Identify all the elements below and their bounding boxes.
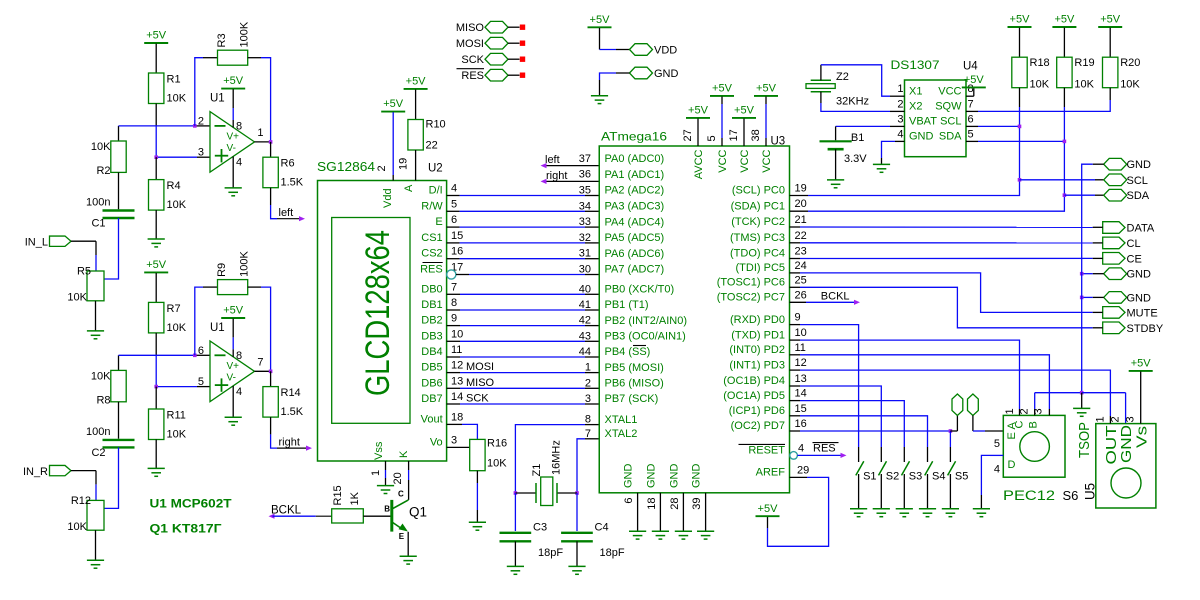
svg-text:18pF: 18pF [600,547,625,559]
svg-text:U1: U1 [210,322,225,334]
svg-text:DB2: DB2 [421,315,442,327]
wire feedback left [195,287,203,355]
svg-text:PB6 (MISO): PB6 (MISO) [605,378,664,390]
svg-text:(OC2) PD7: (OC2) PD7 [731,420,785,432]
wire node to R11 [155,387,157,409]
wire PD3 to TSOP OUT [790,369,801,371]
wire IN_R to R12 [71,470,96,472]
wire node to op-amp +input [156,386,197,388]
svg-text:14: 14 [451,391,463,403]
ground under R12 [87,559,104,561]
svg-text:GND: GND [668,464,680,489]
svg-text:E: E [1006,432,1018,439]
svg-text:33: 33 [579,216,591,228]
svg-text:24: 24 [795,260,807,272]
svg-text:PB0 (XCK/T0): PB0 (XCK/T0) [605,284,675,296]
ground under R4 [148,238,165,240]
svg-text:C3: C3 [533,522,547,534]
IR receiver U5 TSOP outline [1096,424,1156,508]
svg-text:2: 2 [376,165,388,171]
wire R5 to ground [95,301,97,331]
svg-text:K: K [398,450,410,458]
svg-text:8: 8 [451,297,457,309]
wire RTC SDA to R19 column [966,140,978,142]
svg-text:23: 23 [795,246,807,258]
svg-text:PB3 (OC0/AIN1): PB3 (OC0/AIN1) [605,331,686,343]
svg-text:U5: U5 [1082,483,1098,500]
svg-text:4: 4 [897,128,903,140]
svg-text:+5V: +5V [734,105,755,117]
svg-text:7: 7 [451,281,457,293]
svg-text:8: 8 [236,350,242,362]
cyan circle LCD RES pin [447,270,456,279]
net label BCKL (left) [269,514,275,519]
svg-text:GND: GND [1118,425,1135,463]
LCD Vss pin stub [385,461,387,470]
svg-text:3: 3 [897,113,903,125]
svg-text:7: 7 [585,428,591,440]
svg-text:E: E [399,532,405,541]
svg-text:R5: R5 [77,266,91,278]
node GND mid [1080,272,1084,276]
svg-text:C4: C4 [595,522,609,534]
svg-text:PA3 (ADC3): PA3 (ADC3) [605,201,665,213]
svg-text:+5V: +5V [1054,14,1075,26]
svg-text:SCK: SCK [461,54,484,66]
wire R6 to net left [270,188,272,205]
transistor Q1 KT817 [391,501,393,532]
svg-text:+5V: +5V [383,98,404,110]
wire R14 to net right [270,417,272,434]
wire VBAT to B1 [890,125,905,127]
svg-text:R4: R4 [167,180,181,192]
ground under S5 [942,508,959,510]
svg-text:IN_L: IN_L [25,237,48,249]
svg-text:BCKL: BCKL [821,291,850,303]
svg-text:U3: U3 [771,136,786,148]
wire crystal to C3 [514,493,516,531]
svg-text:B: B [1028,421,1040,428]
connector GND [630,67,653,79]
resistor R1 10K [149,73,164,104]
wire PD1 to encoder pin1 [790,339,801,341]
svg-text:+5V: +5V [712,83,733,95]
svg-text:C: C [1014,421,1026,429]
svg-text:+5V: +5V [1100,14,1121,26]
svg-text:10K: 10K [1030,79,1050,91]
svg-text:S6: S6 [1063,488,1079,503]
wire XTAL1 net [585,424,599,426]
capacitor C3 18pF [500,532,532,534]
wire feedback right [248,57,261,59]
svg-text:PEC12: PEC12 [1003,488,1055,503]
svg-text:16MHz: 16MHz [551,440,563,475]
wire C2 to trimmer tap [104,447,119,508]
svg-text:V+: V+ [227,132,240,143]
svg-text:right: right [546,170,567,182]
connector GND (lower) [1104,292,1127,304]
ground under S3 [896,508,913,510]
svg-text:MISO: MISO [466,377,495,389]
svg-text:CS1: CS1 [421,232,442,244]
svg-text:10K: 10K [167,199,187,211]
wire LCD row DB5 [447,372,460,374]
svg-text:DATA: DATA [1127,223,1155,235]
svg-text:+5V: +5V [406,76,427,88]
wire PC2 to DATA [790,226,801,228]
net label right [277,447,307,449]
svg-text:Z1: Z1 [531,464,543,477]
svg-text:16: 16 [795,418,807,430]
wire GND connector [1093,163,1104,165]
svg-text:GND: GND [1127,159,1152,171]
switch S4 [925,461,933,475]
wire PD0 to S1 [790,324,801,326]
svg-text:29: 29 [797,464,809,476]
net label right [541,179,547,184]
resistor R16 10K [470,439,485,470]
svg-text:+5V: +5V [688,105,709,117]
svg-text:GND: GND [623,464,635,489]
resistor R19 10K [1057,57,1072,87]
svg-text:left: left [545,154,560,166]
op-amp U1 unit 1 [210,112,255,173]
svg-text:4: 4 [798,442,804,454]
svg-text:VCC: VCC [938,85,961,97]
connector DATA [1103,222,1125,234]
wire LCD row DB0 [447,293,460,295]
net label left [277,218,300,220]
svg-text:U1 MCP602T: U1 MCP602T [150,497,233,511]
switch S5 [948,461,956,475]
svg-text:38: 38 [750,129,762,141]
svg-text:10K: 10K [167,322,187,334]
wire op-amp output [255,370,271,372]
net label RES (RESET pin) [797,454,841,456]
wire RTC GND pin [895,140,905,142]
node SCL/RTC [1018,125,1022,129]
svg-text:E: E [435,216,442,228]
svg-text:VCC: VCC [739,149,751,172]
svg-text:RES: RES [420,264,443,276]
resistor R10 22 [408,120,423,151]
svg-text:18pF: 18pF [538,547,563,559]
svg-text:15: 15 [795,403,807,415]
svg-text:CE: CE [1127,253,1142,265]
svg-text:44: 44 [579,346,591,358]
svg-text:(TMS) PC3: (TMS) PC3 [730,232,785,244]
svg-text:PA1 (ADC1): PA1 (ADC1) [605,169,665,181]
svg-text:left: left [279,207,294,219]
svg-text:AVCC: AVCC [693,149,705,179]
node feedback [193,354,197,358]
svg-text:9: 9 [795,312,801,324]
wire node to S5 [949,431,951,447]
svg-text:PA0 (ADC0): PA0 (ADC0) [605,153,665,165]
svg-text:10K: 10K [1074,79,1094,91]
wire LCD row DB2 [447,325,460,327]
svg-text:R9: R9 [216,263,228,277]
wire SDA to connector [1064,194,1095,196]
wire LCD row D/I [447,195,460,197]
resistor R3 100K [218,50,248,65]
resistor R12 10K [87,500,104,530]
wire S2 to ground [880,474,882,509]
resistor R20 10K [1103,57,1118,87]
ground under C3 [507,565,524,567]
svg-text:C2: C2 [91,447,105,459]
wire to R14 [270,371,272,386]
svg-text:(OC1A) PD5: (OC1A) PD5 [723,390,785,402]
wire encoder B to PEC12 pin5 [972,416,974,432]
svg-text:DB6: DB6 [421,377,442,389]
svg-text:TSOP: TSOP [1076,422,1093,458]
svg-text:4: 4 [451,183,457,195]
LCD U2 SG12864 outline [318,181,447,462]
RTC U4 DS1307 outline [905,80,967,157]
wire SCL to connector [1020,179,1096,181]
wire to R6 [270,142,272,157]
svg-text:12: 12 [451,360,463,372]
wire GND pin 39 [705,493,707,531]
svg-text:4: 4 [236,157,242,169]
svg-text:D/I: D/I [429,185,443,197]
svg-text:43: 43 [579,330,591,342]
svg-text:3: 3 [1125,416,1137,422]
LCD pin K wire to Q1 collector [408,461,410,470]
svg-text:(INT1) PD3: (INT1) PD3 [729,359,785,371]
svg-text:right: right [279,436,300,448]
svg-text:R15: R15 [332,485,344,505]
wire LCD row CS1 [447,242,460,244]
svg-text:Vss: Vss [373,441,385,460]
svg-text:PA2 (ADC2): PA2 (ADC2) [605,185,665,197]
ground under B1 [827,179,844,181]
wire inverting net [118,126,120,141]
switch S3 [902,461,910,475]
svg-text:17: 17 [728,129,740,141]
wire R15 to Q1 base [363,515,391,517]
svg-text:4: 4 [236,386,242,398]
svg-text:2: 2 [1018,408,1030,414]
svg-text:(TXD) PD1: (TXD) PD1 [731,329,785,341]
svg-text:10: 10 [451,328,463,340]
wire C3 to ground [514,541,516,566]
svg-text:2: 2 [1110,416,1122,422]
net label BCKL (PC7) [790,301,807,303]
svg-text:+5V: +5V [1010,14,1031,26]
wire S1 to ground [858,474,860,509]
svg-text:BCKL: BCKL [271,505,302,517]
svg-text:DB4: DB4 [421,346,442,358]
svg-text:R20: R20 [1120,57,1140,69]
svg-text:V+: V+ [227,361,240,372]
svg-text:DS1307: DS1307 [891,58,940,72]
svg-text:SDA: SDA [1127,190,1150,202]
svg-text:(SCL) PC0: (SCL) PC0 [732,185,785,197]
ground RTC [873,163,890,165]
wire PD2 to encoder pin3 [790,354,801,356]
node PD7/S5 [949,429,953,433]
svg-text:VCC: VCC [761,149,773,172]
ground encoder pin4 [973,508,990,510]
svg-text:42: 42 [579,315,591,327]
svg-text:V-: V- [227,143,236,154]
LCD display area [332,218,410,424]
svg-text:PA7 (ADC7): PA7 (ADC7) [605,264,665,276]
svg-text:13: 13 [795,373,807,385]
ground MCU pin 6 [629,530,646,532]
svg-text:15: 15 [451,230,463,242]
svg-text:+5V: +5V [964,74,985,86]
resistor R6 1.5K [263,157,278,188]
svg-text:U4: U4 [963,61,978,73]
wire AREF to +5V [790,476,808,478]
connector encoder A (hex) [952,394,963,416]
svg-text:Vo: Vo [430,436,443,448]
svg-text:R7: R7 [167,303,181,315]
wire GND stack vertical [1081,180,1083,393]
wire PD5 to S3 [790,400,801,402]
svg-text:+5V: +5V [223,75,244,87]
wire Z2 to X1 [820,65,822,81]
svg-text:R6: R6 [281,158,295,170]
svg-text:+5V: +5V [758,503,779,515]
svg-text:C: C [398,490,404,499]
ground under R16 [469,521,486,523]
svg-text:Vdd: Vdd [382,188,394,208]
svg-text:(TCK) PC2: (TCK) PC2 [731,216,785,228]
wire R4 to ground [155,210,157,239]
resistor R11 10K [149,409,164,440]
svg-text:100n: 100n [86,197,110,209]
wire LCD row E [447,226,460,228]
connector CE [1103,253,1125,265]
svg-text:VCC: VCC [717,149,729,172]
wire GND mid stub [1093,273,1104,275]
svg-text:MISO: MISO [456,22,485,34]
resistor R7 10K [149,302,164,333]
ground MCU pin 39 [697,530,714,532]
wire GND pin 28 [682,493,684,531]
wire op-amp pin4 to ground [232,157,234,188]
svg-text:100K: 100K [239,251,251,277]
capacitor C2 100n [103,439,135,441]
wire Vo to R16 left [447,446,470,448]
connector SCL [1104,174,1127,186]
ground under S1 [850,508,867,510]
net label left [541,163,547,168]
svg-text:2: 2 [585,377,591,389]
crystal Z2 32KHz [811,79,831,81]
svg-text:4: 4 [994,464,1000,476]
svg-text:X1: X1 [909,85,922,97]
svg-text:5: 5 [451,198,457,210]
svg-text:+5V: +5V [590,14,611,26]
svg-text:GLCD128x64: GLCD128x64 [359,230,397,396]
svg-text:21: 21 [795,214,807,226]
wire R8 to C2 [118,402,120,439]
svg-text:ATmega16: ATmega16 [601,130,667,144]
wire Z2 to X2 [820,92,822,103]
svg-text:IN_R: IN_R [23,466,48,478]
svg-text:U1: U1 [210,93,225,105]
svg-text:8: 8 [236,121,242,133]
svg-text:S5: S5 [955,471,968,483]
node R1/R4 [154,155,158,159]
svg-text:Q1 KT817Г: Q1 KT817Г [150,522,222,536]
svg-text:100K: 100K [239,21,251,47]
ground under Q1 [400,555,417,557]
wire GND connector to ground [616,72,630,74]
svg-text:19: 19 [398,158,410,170]
svg-text:DB5: DB5 [421,362,442,374]
svg-text:39: 39 [691,498,703,510]
svg-text:MOSI: MOSI [466,361,494,373]
svg-text:R3: R3 [216,33,228,47]
svg-text:2: 2 [897,98,903,110]
svg-text:PA6 (ADC6): PA6 (ADC6) [605,248,665,260]
svg-text:STDBY: STDBY [1127,323,1164,335]
svg-text:(INT0) PD2: (INT0) PD2 [729,344,785,356]
svg-text:SCK: SCK [466,393,489,405]
svg-text:37: 37 [579,153,591,165]
node XTAL2/crystal [575,491,579,495]
wire node to R4 [155,157,157,179]
svg-text:1.5K: 1.5K [281,406,304,418]
svg-text:100n: 100n [86,426,110,438]
wire PD6 to S4 [790,415,801,417]
ground GND net [1073,407,1090,409]
svg-text:SCL: SCL [940,116,961,128]
svg-text:6: 6 [451,214,457,226]
connector CL [1103,237,1125,249]
switch S2 [879,461,887,475]
svg-text:+5V: +5V [756,83,777,95]
cyan circle MCU RESET [790,452,798,460]
wire S3 to ground [903,474,905,509]
wire feedback left [195,58,203,126]
svg-text:S3: S3 [909,471,922,483]
connector GND (top) [1104,158,1127,170]
connector SDA [1104,189,1127,201]
svg-text:35: 35 [579,185,591,197]
wire Vout to R16 top [447,423,462,425]
op-amp U1 unit 2 [210,341,255,402]
svg-text:1.5K: 1.5K [281,177,304,189]
wire R10 to A pin [415,150,417,181]
svg-text:32: 32 [579,232,591,244]
resistor R2 10K [111,141,126,172]
svg-text:SG12864: SG12864 [317,160,375,174]
wire XTAL2 net [585,438,599,440]
svg-text:PB2 (INT2/AIN0): PB2 (INT2/AIN0) [605,315,688,327]
svg-text:+5V: +5V [146,259,167,271]
svg-text:S2: S2 [886,471,899,483]
wire LCD row R/W [447,210,460,212]
wire R7 bottom [155,333,157,355]
ground under C4 [568,565,585,567]
svg-text:10K: 10K [91,141,111,153]
wire LCD row DB7 [447,403,460,405]
wire PC3 to CL [790,242,801,244]
ground (aux) [591,95,608,97]
battery B1 3.3V [820,140,852,142]
svg-text:R1: R1 [167,74,181,86]
svg-text:6: 6 [623,498,635,504]
svg-text:10K: 10K [67,292,87,304]
svg-text:34: 34 [579,200,591,212]
